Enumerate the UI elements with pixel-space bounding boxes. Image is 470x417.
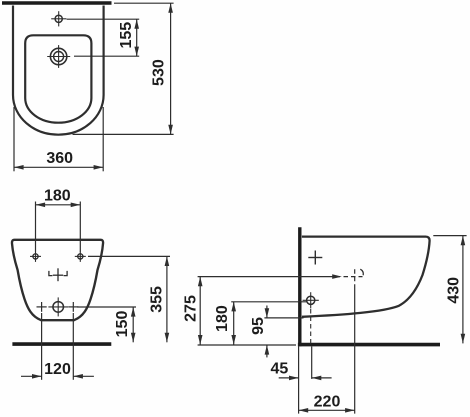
svg-text:45: 45 [271,361,289,378]
svg-text:275: 275 [183,295,200,322]
svg-text:180: 180 [44,187,71,204]
svg-text:150: 150 [114,311,131,338]
svg-text:530: 530 [151,59,168,86]
svg-text:180: 180 [214,305,231,332]
svg-text:360: 360 [46,150,73,167]
svg-text:155: 155 [118,22,135,49]
svg-text:120: 120 [44,361,71,378]
svg-text:95: 95 [250,317,267,335]
svg-text:220: 220 [314,393,341,410]
svg-text:355: 355 [149,286,166,313]
svg-text:430: 430 [445,277,462,304]
